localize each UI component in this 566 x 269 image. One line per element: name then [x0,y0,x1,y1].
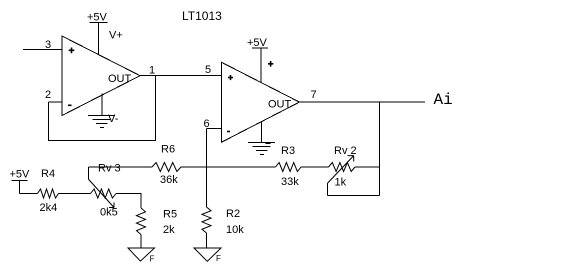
svg-text:36k: 36k [160,174,178,186]
potentiometer Rv3 wiper arrow [88,179,114,208]
svg-text:7: 7 [311,89,317,101]
plus supply label U1b [268,61,273,67]
svg-text:10k: 10k [226,224,244,236]
potentiometer Rv3 body [91,189,117,198]
wire +5V stub down [19,181,21,194]
op-amp U1b plus input marker [228,75,233,80]
svg-text:+5V: +5V [247,37,268,49]
wire row line left (Rv3 top to R6) [88,166,152,168]
svg-text:2: 2 [45,89,51,101]
wire feedback vertical from output [379,102,381,196]
svg-text:R6: R6 [161,144,175,156]
op-amp U1b minus input marker [227,131,230,133]
svg-text:Rv 3: Rv 3 [98,163,121,175]
resistor R6 [152,163,181,172]
wire pin3 input [23,49,62,51]
wire pin2 input [49,101,63,103]
svg-text:3: 3 [45,39,51,51]
svg-text:1k: 1k [335,177,347,189]
svg-text:2k4: 2k4 [40,202,58,214]
svg-text:R5: R5 [163,209,177,221]
wire R6 to junction [181,166,207,168]
wire Rv2 right to feedback vertical [355,166,380,168]
wire V+ stub U1b [260,48,262,83]
ground frame triangle R5 [128,248,155,261]
svg-text:LT1013: LT1013 [182,9,222,23]
wire Rv3 wiper vertical to row line [87,167,89,179]
wire R3 to Rv2 [301,166,329,168]
potentiometer Rv2 body [329,163,356,172]
minus supply label U1b [266,143,271,145]
wire ground stub U1b [261,122,263,143]
wire U1a output to U1b plus input [140,75,222,77]
wire U1b output [299,101,425,103]
op-amp U1b [222,62,300,142]
resistor R5 [137,208,146,235]
resistor R3 [276,163,302,172]
wire feedback bottom [328,195,380,197]
wire V+ stub U1a [98,23,100,55]
ground earth U1b [248,143,275,155]
wire wiper to feedback bottom [327,183,329,196]
svg-text:R2: R2 [226,208,240,220]
svg-text:V+: V+ [109,30,123,42]
potentiometer Rv2 wiper arrow [328,156,354,183]
svg-text:+5V: +5V [87,12,108,24]
wire R2 to ground [206,233,208,248]
wire R5 to ground [140,235,142,249]
wire U1a feedback loop [49,76,156,141]
svg-text:F: F [216,254,221,263]
svg-text:6: 6 [204,118,210,130]
wire pin6 down to row junction and R2 [206,129,208,208]
wire junction to R3 [207,166,276,168]
ground earth U1a [88,116,115,128]
wire R4 to Rv3 [59,193,91,195]
wire +5V to R4 [20,193,38,195]
svg-text:F: F [150,255,155,264]
op-amp U1a [62,36,140,116]
svg-text:R3: R3 [281,145,295,157]
wire ground stub U1a [101,94,103,116]
svg-text:1: 1 [149,65,155,77]
wire Rv3 to R5 corner [116,194,141,209]
resistor R2 [202,207,211,233]
svg-text:0k5: 0k5 [100,207,118,219]
svg-text:5: 5 [205,64,211,76]
svg-text:Ai: Ai [434,91,453,109]
svg-text:Rv 2: Rv 2 [334,145,357,157]
svg-text:2k: 2k [163,224,175,236]
svg-text:OUT: OUT [268,99,292,111]
svg-text:+5V: +5V [10,169,31,181]
wire pin6 input [207,128,222,130]
ground frame triangle R2 [194,248,221,261]
svg-text:33k: 33k [281,176,299,188]
power +5V U1b bar [252,47,268,49]
svg-text:V-: V- [108,113,119,125]
power +5V U1a bar [90,22,108,24]
svg-text:OUT: OUT [108,73,132,85]
op-amp U1a plus input marker [69,48,75,54]
resistor R4 [38,189,59,198]
op-amp U1a minus input marker [68,104,72,106]
svg-text:R4: R4 [41,168,55,180]
power +5V bottom bar [12,180,28,182]
